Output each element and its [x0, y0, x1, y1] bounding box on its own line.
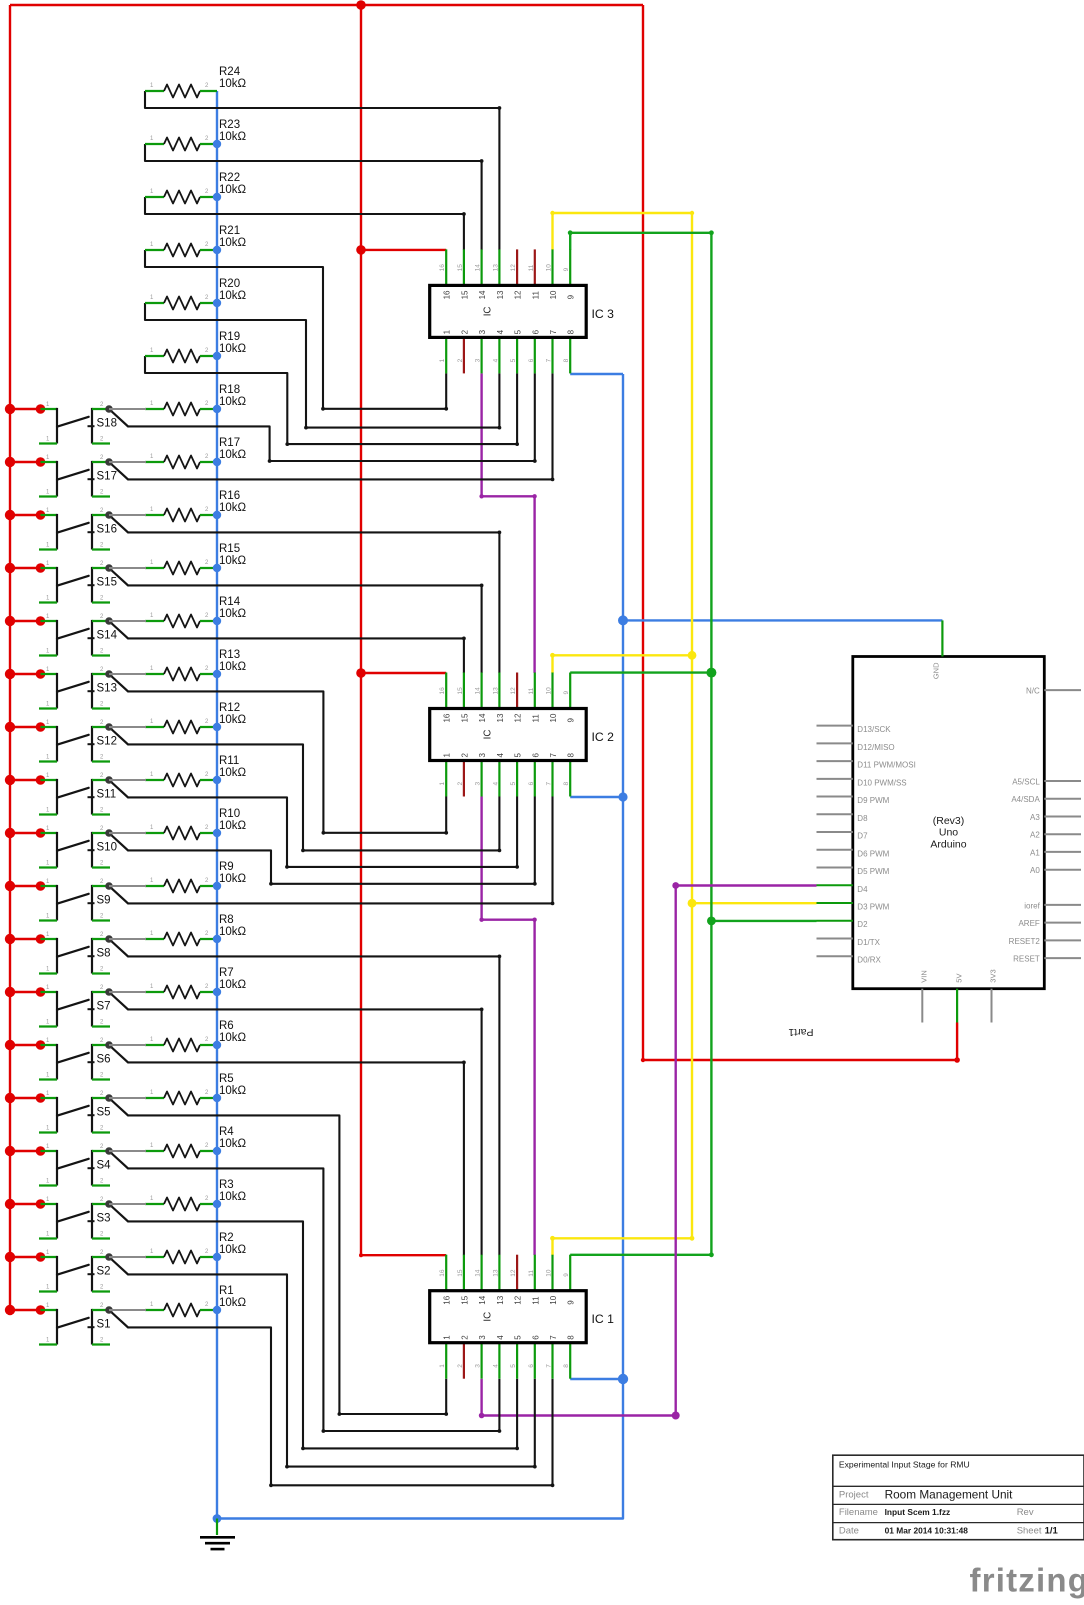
svg-text:14: 14 — [478, 290, 487, 299]
svg-text:16: 16 — [443, 290, 452, 299]
svg-text:10kΩ: 10kΩ — [219, 1191, 247, 1203]
wire R24 to IC3 pin 13 — [145, 91, 501, 250]
svg-text:16: 16 — [443, 1295, 452, 1304]
junction GND bus at R12 — [213, 723, 221, 731]
svg-text:A1: A1 — [1030, 848, 1040, 857]
svg-text:10kΩ: 10kΩ — [219, 555, 247, 567]
svg-text:10kΩ: 10kΩ — [219, 926, 247, 938]
svg-text:R20: R20 — [219, 278, 240, 290]
svg-text:2: 2 — [457, 358, 464, 362]
IC1 shift register U1 — [430, 1255, 614, 1379]
svg-text:Uno: Uno — [939, 827, 958, 839]
svg-text:10: 10 — [549, 290, 558, 299]
svg-text:13: 13 — [492, 687, 499, 695]
svg-text:5: 5 — [510, 782, 517, 786]
svg-text:11: 11 — [528, 687, 535, 694]
wire S7 lever to IC1 pin 14 — [128, 1008, 484, 1256]
svg-text:IC: IC — [483, 730, 494, 740]
junction GND bus at R1 — [213, 1306, 221, 1314]
wire S15 lever to IC2 pin 14 — [128, 584, 484, 674]
svg-text:S7: S7 — [97, 1001, 111, 1013]
switch S5 SPDT — [5, 1091, 146, 1133]
svg-text:A4/SDA: A4/SDA — [1011, 795, 1040, 804]
wire R21 to IC3 pin 1 — [145, 250, 448, 411]
resistor R5 10k — [145, 1073, 247, 1105]
wire S3 lever to IC1 pin 5 — [128, 1221, 519, 1450]
switch S7 SPDT — [5, 985, 146, 1027]
svg-text:D5 PWM: D5 PWM — [857, 867, 889, 876]
wire yellow clock vertical — [550, 211, 694, 1239]
wire GND bottom run — [217, 374, 623, 1519]
svg-text:5: 5 — [510, 1364, 517, 1368]
switch S14 SPDT — [5, 614, 146, 656]
svg-text:VIN: VIN — [920, 970, 929, 983]
svg-text:9: 9 — [563, 1273, 570, 1277]
junction GND bus at R7 — [213, 988, 221, 996]
wire +5V mid vertical to IC pin-16 taps — [360, 5, 362, 1255]
svg-text:S8: S8 — [97, 948, 111, 960]
svg-text:(Rev3): (Rev3) — [933, 815, 965, 827]
wire IC1 pin 8 to GND — [570, 1374, 628, 1384]
resistor R4 10k — [145, 1126, 247, 1158]
svg-text:13: 13 — [496, 290, 505, 299]
svg-text:Sheet: Sheet — [1017, 1526, 1042, 1537]
svg-text:10kΩ: 10kΩ — [219, 608, 247, 620]
junction GND bus at R5 — [213, 1094, 221, 1102]
junction GND bus at R11 — [213, 776, 221, 784]
svg-text:10kΩ: 10kΩ — [219, 820, 247, 832]
svg-text:1: 1 — [439, 782, 446, 786]
svg-text:S17: S17 — [97, 471, 117, 483]
wire GND blue bus vertical — [216, 91, 218, 1519]
svg-text:12: 12 — [510, 687, 517, 695]
svg-text:13: 13 — [492, 1269, 499, 1277]
svg-text:2: 2 — [460, 753, 469, 758]
svg-text:10kΩ: 10kΩ — [219, 290, 247, 302]
svg-text:15: 15 — [457, 264, 464, 272]
junction GND bus at R9 — [213, 882, 221, 890]
junction GND bus at R14 — [213, 617, 221, 625]
svg-text:R12: R12 — [219, 702, 240, 714]
svg-text:3: 3 — [478, 753, 487, 758]
svg-text:R8: R8 — [219, 914, 234, 926]
svg-text:3: 3 — [478, 1335, 487, 1340]
junction GND bus at R6 — [213, 1041, 221, 1049]
svg-text:D10 PWM/SS: D10 PWM/SS — [857, 778, 906, 787]
svg-text:8: 8 — [567, 753, 576, 758]
resistor R18 10k — [145, 384, 247, 416]
svg-text:1: 1 — [439, 358, 446, 362]
svg-text:2: 2 — [460, 1335, 469, 1340]
svg-text:D9 PWM: D9 PWM — [857, 796, 889, 805]
svg-text:S11: S11 — [97, 789, 117, 801]
svg-text:9: 9 — [563, 691, 570, 695]
wire S8 lever to IC1 pin 13 — [128, 955, 501, 1256]
svg-text:10kΩ: 10kΩ — [219, 1244, 247, 1256]
resistor R14 10k — [145, 596, 247, 628]
svg-text:S14: S14 — [97, 630, 118, 642]
switch S9 SPDT — [5, 879, 146, 921]
svg-text:D13/SCK: D13/SCK — [857, 725, 891, 734]
svg-text:6: 6 — [528, 782, 535, 786]
svg-text:15: 15 — [460, 1295, 469, 1304]
svg-text:10kΩ: 10kΩ — [219, 78, 247, 90]
wire R20 to IC3 pin 4 — [145, 303, 501, 430]
svg-text:S16: S16 — [97, 524, 117, 536]
wire +5V tap to IC3 pin 16 — [356, 245, 446, 255]
svg-text:10kΩ: 10kΩ — [219, 396, 247, 408]
svg-text:S13: S13 — [97, 683, 117, 695]
svg-text:R3: R3 — [219, 1179, 234, 1191]
switch S11 SPDT — [5, 773, 146, 815]
svg-text:R18: R18 — [219, 384, 240, 396]
svg-text:RESET2: RESET2 — [1009, 937, 1041, 946]
svg-text:R4: R4 — [219, 1126, 234, 1138]
svg-text:6: 6 — [531, 329, 540, 334]
wire S11 lever to IC2 pin 5 — [128, 797, 519, 869]
svg-text:16: 16 — [439, 1269, 446, 1277]
svg-text:A5/SCL: A5/SCL — [1012, 778, 1040, 787]
svg-text:D12/MISO: D12/MISO — [857, 743, 894, 752]
svg-text:D0/RX: D0/RX — [857, 956, 881, 965]
svg-text:AREF: AREF — [1018, 919, 1039, 928]
junction GND bus at R16 — [213, 511, 221, 519]
svg-text:9: 9 — [567, 294, 576, 299]
svg-text:D8: D8 — [857, 814, 868, 823]
switch S12 SPDT — [5, 720, 146, 762]
svg-text:8: 8 — [563, 358, 570, 362]
resistor R8 10k — [145, 914, 247, 946]
svg-text:2: 2 — [457, 1364, 464, 1368]
svg-text:S6: S6 — [97, 1054, 111, 1066]
svg-text:13: 13 — [496, 713, 505, 722]
wire R23 to IC3 pin 14 — [145, 144, 484, 250]
svg-text:R24: R24 — [219, 66, 241, 78]
svg-text:3: 3 — [475, 358, 482, 362]
svg-text:R17: R17 — [219, 437, 240, 449]
svg-text:A0: A0 — [1030, 866, 1040, 875]
svg-text:R7: R7 — [219, 967, 234, 979]
svg-text:D3 PWM: D3 PWM — [857, 903, 889, 912]
resistor R9 10k — [145, 861, 247, 893]
svg-text:12: 12 — [510, 264, 517, 272]
svg-text:N/C: N/C — [1026, 687, 1040, 696]
junction GND bus at R19 — [213, 352, 221, 360]
svg-text:1: 1 — [443, 329, 452, 334]
svg-text:R22: R22 — [219, 172, 240, 184]
switch S16 SPDT — [5, 508, 146, 550]
wire S13 lever to IC2 pin 1 — [128, 691, 448, 834]
svg-text:8: 8 — [567, 329, 576, 334]
svg-text:S1: S1 — [97, 1319, 111, 1331]
svg-text:4: 4 — [496, 329, 505, 334]
svg-text:13: 13 — [492, 264, 499, 272]
svg-text:11: 11 — [531, 1296, 540, 1305]
svg-text:5V: 5V — [954, 974, 963, 983]
svg-text:7: 7 — [549, 753, 558, 758]
switch S15 SPDT — [5, 561, 146, 603]
resistor R21 10k — [145, 225, 247, 257]
svg-text:5: 5 — [514, 1335, 523, 1340]
svg-text:10: 10 — [549, 713, 558, 722]
svg-text:R16: R16 — [219, 490, 240, 502]
svg-text:5: 5 — [510, 358, 517, 362]
wire S1 lever to IC1 pin 7 — [128, 1327, 554, 1487]
svg-text:D6 PWM: D6 PWM — [857, 849, 889, 858]
svg-text:R14: R14 — [219, 596, 241, 608]
svg-text:10kΩ: 10kΩ — [219, 1138, 247, 1150]
wire S17 lever to IC3 pin 7 — [128, 373, 554, 481]
svg-text:6: 6 — [528, 1364, 535, 1368]
svg-text:10kΩ: 10kΩ — [219, 237, 247, 249]
svg-text:3: 3 — [478, 329, 487, 334]
svg-text:10: 10 — [546, 1269, 553, 1277]
wire S10 lever to IC2 pin 6 — [128, 797, 537, 886]
fritzing logo — [970, 1562, 1084, 1599]
resistor R16 10k — [145, 490, 247, 522]
svg-text:ioref: ioref — [1024, 901, 1040, 910]
switch S1 SPDT — [5, 1303, 146, 1345]
svg-text:D4: D4 — [857, 885, 868, 894]
junction GND bus at R13 — [213, 670, 221, 678]
svg-text:12: 12 — [514, 713, 523, 722]
svg-text:S9: S9 — [97, 895, 111, 907]
junction GND bus at R20 — [213, 299, 221, 307]
svg-text:11: 11 — [528, 264, 535, 271]
svg-text:12: 12 — [514, 1295, 523, 1304]
wire green IC1 pin 9 tap — [570, 1252, 714, 1257]
svg-text:10kΩ: 10kΩ — [219, 661, 247, 673]
svg-text:1: 1 — [443, 1335, 452, 1340]
svg-text:R21: R21 — [219, 225, 240, 237]
svg-text:10: 10 — [546, 687, 553, 695]
svg-text:7: 7 — [549, 1335, 558, 1340]
svg-text:IC: IC — [483, 1312, 494, 1322]
svg-text:14: 14 — [478, 1295, 487, 1304]
wire IC3 pin 8 to GND — [570, 373, 623, 375]
svg-text:10kΩ: 10kΩ — [219, 979, 247, 991]
svg-text:A3: A3 — [1030, 813, 1040, 822]
svg-text:10kΩ: 10kΩ — [219, 131, 247, 143]
svg-text:R23: R23 — [219, 119, 240, 131]
svg-text:S3: S3 — [97, 1213, 111, 1225]
svg-text:S12: S12 — [97, 736, 117, 748]
svg-text:7: 7 — [546, 358, 553, 362]
junction GND bus at R2 — [213, 1253, 221, 1261]
svg-text:10kΩ: 10kΩ — [219, 184, 247, 196]
svg-text:2: 2 — [460, 329, 469, 334]
svg-text:15: 15 — [460, 713, 469, 722]
svg-text:7: 7 — [549, 329, 558, 334]
wire green IC2 pin 9 tap — [570, 668, 716, 678]
svg-text:10kΩ: 10kΩ — [219, 767, 247, 779]
svg-text:15: 15 — [457, 1269, 464, 1277]
svg-text:15: 15 — [460, 290, 469, 299]
svg-text:IC 2: IC 2 — [592, 730, 615, 744]
svg-text:10: 10 — [546, 264, 553, 272]
svg-text:R1: R1 — [219, 1285, 234, 1297]
wire Arduino GND to bus — [618, 615, 942, 625]
svg-text:1: 1 — [439, 1364, 446, 1368]
svg-text:3: 3 — [475, 1364, 482, 1368]
svg-text:10kΩ: 10kΩ — [219, 873, 247, 885]
wire yellow IC1 pin 10 tap — [550, 1236, 694, 1255]
IC3 shift register U3 — [430, 249, 614, 373]
wire purple IC1 pin 3 to Arduino D4 — [479, 882, 817, 1419]
wire R19 to IC3 pin 5 — [145, 356, 519, 446]
svg-text:10kΩ: 10kΩ — [219, 502, 247, 514]
svg-text:10kΩ: 10kΩ — [219, 1297, 247, 1309]
wire S6 lever to IC1 pin 15 — [128, 1061, 466, 1256]
svg-text:S18: S18 — [97, 418, 117, 430]
wire green latch vertical — [568, 230, 714, 1254]
svg-text:3: 3 — [475, 782, 482, 786]
svg-text:S15: S15 — [97, 577, 117, 589]
junction GND bus at R17 — [213, 458, 221, 466]
switch S8 SPDT — [5, 932, 146, 974]
junction GND bus at R18 — [213, 405, 221, 413]
svg-text:8: 8 — [563, 1364, 570, 1368]
svg-text:5: 5 — [514, 329, 523, 334]
svg-text:9: 9 — [567, 718, 576, 723]
resistor R1 10k — [145, 1285, 247, 1317]
svg-text:R15: R15 — [219, 543, 240, 555]
wire S14 lever to IC2 pin 15 — [128, 637, 466, 674]
svg-text:R19: R19 — [219, 331, 240, 343]
ground — [200, 1519, 235, 1550]
svg-text:13: 13 — [496, 1295, 505, 1304]
svg-text:D2: D2 — [857, 920, 868, 929]
svg-text:10: 10 — [549, 1295, 558, 1304]
svg-text:9: 9 — [563, 267, 570, 271]
svg-text:8: 8 — [567, 1335, 576, 1340]
svg-text:10kΩ: 10kΩ — [219, 714, 247, 726]
svg-text:D7: D7 — [857, 832, 868, 841]
switch S6 SPDT — [5, 1038, 146, 1080]
svg-text:R13: R13 — [219, 649, 240, 661]
svg-text:GND: GND — [932, 662, 941, 679]
switch S17 SPDT — [5, 455, 146, 497]
svg-text:Experimental Input Stage for R: Experimental Input Stage for RMU — [839, 1460, 970, 1470]
switch S3 SPDT — [5, 1197, 146, 1239]
svg-text:Filename: Filename — [839, 1507, 878, 1518]
resistor R7 10k — [145, 967, 247, 999]
svg-text:D1/TX: D1/TX — [857, 938, 880, 947]
resistor R24 10k — [145, 66, 247, 98]
wire IC2 pin 8 to GND — [570, 792, 627, 801]
svg-text:IC: IC — [483, 306, 494, 316]
resistor R20 10k — [145, 278, 247, 310]
svg-text:R5: R5 — [219, 1073, 234, 1085]
wire S5 lever to IC1 pin 1 — [128, 1115, 448, 1416]
svg-text:R10: R10 — [219, 808, 240, 820]
resistor R3 10k — [145, 1179, 247, 1211]
svg-text:1: 1 — [443, 753, 452, 758]
wire S16 lever to IC2 pin 13 — [128, 531, 501, 674]
svg-text:4: 4 — [492, 358, 499, 362]
wire S9 lever to IC2 pin 7 — [128, 797, 554, 906]
junction GND bus at R15 — [213, 564, 221, 572]
switch S10 SPDT — [5, 826, 146, 868]
svg-text:6: 6 — [528, 358, 535, 362]
svg-text:Part1: Part1 — [788, 1026, 813, 1038]
wire +5V top rail horizontal — [10, 4, 643, 6]
junction GND bus at R4 — [213, 1147, 221, 1155]
junction GND bus bottom — [213, 1514, 222, 1523]
wire R22 to IC3 pin 15 — [145, 197, 466, 250]
svg-text:IC 1: IC 1 — [592, 1312, 615, 1326]
svg-text:4: 4 — [496, 1335, 505, 1340]
junction GND bus at R23 — [213, 140, 221, 148]
wire +5V left bus vertical — [9, 5, 11, 1310]
svg-text:10kΩ: 10kΩ — [219, 449, 247, 461]
resistor R12 10k — [145, 702, 247, 734]
resistor R22 10k — [145, 172, 247, 204]
junction GND bus at R8 — [213, 935, 221, 943]
svg-text:Project: Project — [839, 1490, 869, 1501]
resistor R15 10k — [145, 543, 247, 575]
wire purple IC2 pin 3 to IC1 pin 11 — [479, 797, 536, 1256]
wire purple IC3 pin 3 to IC2 pin 11 — [479, 373, 536, 673]
wire S2 lever to IC1 pin 6 — [128, 1274, 537, 1468]
svg-text:2: 2 — [457, 782, 464, 786]
svg-text:D11 PWM/MOSI: D11 PWM/MOSI — [857, 761, 916, 770]
junction +5V top rail — [356, 0, 366, 10]
svg-text:12: 12 — [514, 290, 523, 299]
junction GND bus at R3 — [213, 1200, 221, 1208]
wire +5V right vertical to Arduino 5V — [641, 5, 960, 1063]
svg-text:Input Scem 1.fzz: Input Scem 1.fzz — [885, 1507, 951, 1517]
svg-text:16: 16 — [439, 264, 446, 272]
junction GND bus at R21 — [213, 246, 221, 254]
wire +5V tap to IC2 pin 16 — [356, 668, 446, 678]
Arduino Uno Part1 — [788, 620, 1081, 1038]
svg-text:9: 9 — [567, 1300, 576, 1305]
wire S12 lever to IC2 pin 4 — [128, 744, 501, 852]
switch S4 SPDT — [5, 1144, 146, 1186]
svg-text:A2: A2 — [1030, 831, 1040, 840]
switch S13 SPDT — [5, 667, 146, 709]
svg-text:10kΩ: 10kΩ — [219, 1032, 247, 1044]
svg-text:R2: R2 — [219, 1232, 234, 1244]
wire S4 lever to IC1 pin 4 — [128, 1168, 501, 1433]
svg-text:S2: S2 — [97, 1266, 111, 1278]
svg-text:IC 3: IC 3 — [592, 307, 615, 321]
svg-text:R6: R6 — [219, 1020, 234, 1032]
svg-text:S10: S10 — [97, 842, 117, 854]
svg-text:14: 14 — [475, 687, 482, 695]
svg-text:7: 7 — [546, 782, 553, 786]
svg-text:Rev: Rev — [1017, 1507, 1034, 1518]
svg-text:7: 7 — [546, 1364, 553, 1368]
svg-text:3V3: 3V3 — [989, 969, 998, 982]
resistor R11 10k — [145, 755, 247, 787]
resistor R10 10k — [145, 808, 247, 840]
wire green to Arduino D2 — [707, 917, 817, 926]
switch S2 SPDT — [5, 1250, 146, 1292]
svg-text:Room Management Unit: Room Management Unit — [885, 1488, 1014, 1502]
wire +5V tap to IC1 pin 16 — [359, 1253, 446, 1257]
resistor R17 10k — [145, 437, 247, 469]
resistor R2 10k — [145, 1232, 247, 1264]
svg-text:16: 16 — [439, 687, 446, 695]
wire S18 lever to IC3 pin 6 — [128, 373, 537, 463]
svg-text:14: 14 — [475, 1269, 482, 1277]
IC2 shift register U2 — [430, 673, 614, 797]
svg-text:15: 15 — [457, 687, 464, 695]
svg-text:4: 4 — [496, 753, 505, 758]
svg-text:1/1: 1/1 — [1045, 1526, 1059, 1537]
